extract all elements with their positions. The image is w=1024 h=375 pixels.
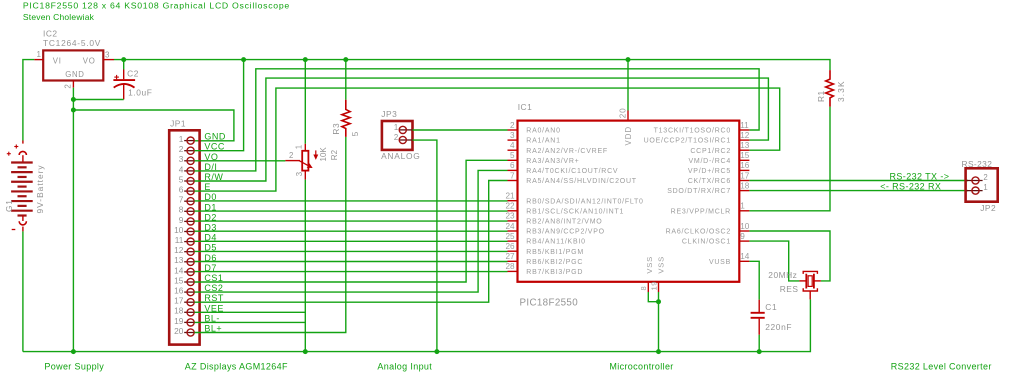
svg-text:RB1/SCL/SCK/AN10/INT1: RB1/SCL/SCK/AN10/INT1: [526, 208, 624, 215]
svg-text:12: 12: [740, 131, 750, 140]
svg-text:RB2/AN8/INT2/VMO: RB2/AN8/INT2/VMO: [526, 219, 602, 226]
svg-text:7: 7: [179, 195, 184, 205]
wire net D5 from JP1 to IC1 RB5: [194, 250, 507, 252]
IC1 pin number 19: [650, 281, 659, 290]
wire net BL- from JP1 pin19 to ground column: [194, 321, 305, 323]
IC1 pin number 20 VDD: [618, 107, 627, 118]
battery value label 9V-Battery: [35, 164, 45, 213]
svg-text:1: 1: [179, 134, 184, 144]
svg-text:4: 4: [510, 141, 515, 150]
svg-text:28: 28: [505, 262, 515, 271]
wire net D2 from JP1 to IC1 RB2: [194, 220, 507, 222]
wire VCC rail: [114, 60, 830, 71]
junction ground rail JP3 branch: [434, 349, 439, 354]
wire R1 bottom to MCLR net: [749, 107, 830, 211]
connector JP3 body with 2 pin pads: [382, 121, 413, 150]
svg-text:AZ Displays AGM1264F: AZ Displays AGM1264F: [185, 362, 288, 372]
svg-text:19: 19: [174, 316, 184, 326]
svg-text:26: 26: [505, 242, 515, 251]
svg-text:GND: GND: [204, 132, 226, 142]
svg-text:21: 21: [505, 192, 515, 201]
svg-text:RA3/AN3/VR+: RA3/AN3/VR+: [526, 158, 579, 165]
capacitor C1 body: [751, 300, 765, 335]
connector JP1 body with 20 pin pads: [169, 130, 199, 344]
junction GND trunk: [71, 108, 76, 113]
svg-text:CCP1/RC2: CCP1/RC2: [690, 148, 731, 155]
resistor R1 name: [816, 90, 826, 102]
svg-text:VDD: VDD: [624, 126, 633, 146]
wire net D0 from JP1 to IC1 RB0: [194, 200, 507, 202]
resonator name RES: [780, 284, 799, 294]
resistor R3 name: [331, 123, 341, 135]
svg-text:11: 11: [175, 235, 184, 245]
wire VCC rail to IC1 VDD: [627, 60, 629, 111]
IC1 VDD label: [624, 126, 633, 146]
svg-text:RA6/CLKO/OSC2: RA6/CLKO/OSC2: [666, 229, 731, 236]
wire VCC rail to R2 pin1: [304, 60, 306, 144]
svg-text:VP/D+/RC5: VP/D+/RC5: [688, 168, 731, 175]
R2 pin number 1: [294, 145, 303, 149]
wire net VCC from rail to JP1 pin2: [194, 60, 243, 151]
svg-text:IC2: IC2: [43, 29, 58, 39]
svg-text:VI: VI: [53, 56, 62, 65]
junction ground rail VSS branch: [656, 349, 661, 354]
svg-text:10: 10: [174, 225, 184, 235]
svg-text:20: 20: [618, 107, 627, 118]
svg-text:9: 9: [740, 232, 745, 241]
svg-text:24: 24: [505, 222, 515, 231]
svg-text:C1: C1: [765, 302, 777, 312]
junction C2 top on VCC rail: [121, 57, 126, 62]
svg-text:8: 8: [179, 205, 184, 215]
svg-text:14: 14: [740, 252, 750, 261]
wire IC1 VUSB pin14 to C1 top: [749, 261, 759, 299]
svg-text:CLKIN/OSC1: CLKIN/OSC1: [682, 239, 731, 246]
svg-text:JP3: JP3: [381, 109, 397, 119]
svg-text:T13CKI/T1OSO/RC0: T13CKI/T1OSO/RC0: [654, 128, 731, 135]
microcontroller IC1 value PIC18F2550: [520, 297, 579, 308]
svg-text:Steven Cholewiak: Steven Cholewiak: [23, 12, 95, 22]
svg-text:GND: GND: [65, 70, 84, 79]
svg-text:17: 17: [174, 296, 184, 306]
svg-text:RE3/VPP/MCLR: RE3/VPP/MCLR: [671, 208, 731, 215]
resistor R1 body: [826, 70, 834, 107]
svg-text:18: 18: [740, 181, 750, 190]
wire net D3 from JP1 to IC1 RB3: [194, 230, 507, 232]
wire net RX from IC1 pin18 to JP2 pin1: [749, 190, 968, 192]
IC2 label GND: [65, 70, 84, 79]
wire R2 pin3 to ground rail: [304, 180, 306, 352]
title text line 1: [23, 1, 290, 11]
svg-text:RA2/AN2/VR-/CVREF: RA2/AN2/VR-/CVREF: [526, 148, 608, 155]
junction IC1 VDD trunk on VCC rail: [626, 57, 631, 62]
svg-text:Analog Input: Analog Input: [377, 362, 432, 372]
resistor R3 value 5: [350, 131, 360, 136]
wire net D4 from JP1 to IC1 RB4: [194, 240, 507, 242]
svg-text:18: 18: [174, 306, 184, 316]
svg-text:11: 11: [740, 121, 749, 130]
JP3 pin number 2: [394, 133, 398, 142]
svg-text:14: 14: [174, 265, 184, 275]
microcontroller IC1 body: [508, 111, 750, 293]
svg-text:8: 8: [639, 286, 648, 290]
wire C1 bottom to ground rail: [758, 335, 760, 352]
trimmer R2 name: [330, 149, 339, 160]
JP2 pin number 2: [983, 173, 987, 182]
junction C2 GND: [71, 97, 76, 102]
svg-text:12: 12: [174, 245, 184, 255]
wire net TX from IC1 pin17 to JP2 pin2: [749, 180, 968, 182]
net label RS-232 TX ->: [890, 171, 950, 181]
svg-text:9V-Battery: 9V-Battery: [35, 164, 45, 213]
voltage regulator IC2 value TC1264-5.0V: [43, 38, 101, 48]
resistor R1 value 3.3K: [836, 80, 846, 102]
wire C2 bottom to GND trunk: [73, 99, 123, 101]
svg-text:RA0/AN0: RA0/AN0: [526, 128, 560, 135]
wire JP3 pin2 to ground rail: [413, 140, 437, 352]
svg-text:R3: R3: [331, 123, 341, 135]
wire IC1 VSS pin8 to pin19 column: [648, 292, 658, 302]
connector JP3 value ANALOG: [381, 151, 420, 161]
svg-text:RB7/KBI3/PGD: RB7/KBI3/PGD: [526, 269, 583, 276]
svg-text:1.0uF: 1.0uF: [128, 87, 152, 97]
svg-text:1: 1: [37, 50, 42, 59]
svg-text:VM/D-/RC4: VM/D-/RC4: [688, 158, 731, 165]
junction VSS pins join: [656, 299, 661, 304]
trimmer R2 value 10K: [319, 147, 328, 162]
svg-text:TC1264-5.0V: TC1264-5.0V: [43, 38, 101, 48]
connector JP2 value label: [980, 203, 996, 213]
svg-text:17: 17: [740, 171, 750, 180]
wire battery minus to ground rail: [22, 231, 24, 351]
svg-text:R1: R1: [816, 90, 826, 102]
connector JP3 name: [381, 109, 397, 119]
svg-text:RA1/AN1: RA1/AN1: [526, 138, 560, 145]
svg-text:VO: VO: [83, 56, 96, 65]
wire net VO from JP1 pin3 to R2 wiper: [194, 160, 285, 162]
junction ground rail R2 branch: [303, 349, 308, 354]
IC2 label VI: [53, 56, 62, 65]
voltage regulator IC2 name: [43, 29, 58, 39]
wire net D6 from JP1 to IC1 RB6: [194, 261, 507, 263]
trimmer R2 body: [285, 144, 317, 180]
wire net D1 from JP1 to IC1 RB1: [194, 210, 507, 212]
svg-text:220nF: 220nF: [765, 322, 792, 332]
wire IC1 OSC2 pin10 to resonator right: [749, 231, 830, 281]
svg-text:5: 5: [179, 174, 184, 184]
svg-text:23: 23: [505, 212, 515, 221]
svg-text:5: 5: [510, 151, 515, 160]
svg-text:R2: R2: [330, 149, 339, 160]
svg-text:19: 19: [650, 281, 659, 290]
wire IC1 OSC1 pin9 to resonator left: [749, 241, 799, 281]
svg-text:2: 2: [510, 121, 515, 130]
svg-text:PIC18F2550 128 x 64 KS0108 Gra: PIC18F2550 128 x 64 KS0108 Graphical LCD…: [23, 1, 290, 11]
wire IC1 VSS pin19 to ground rail: [658, 292, 660, 352]
wire net E from JP1 pin6 via top bus to IC1 pin13: [194, 88, 779, 191]
svg-text:2: 2: [63, 84, 72, 89]
svg-text:1: 1: [294, 145, 303, 149]
junction R2 pin1 trunk on VCC rail: [303, 57, 308, 62]
svg-text:15: 15: [740, 151, 750, 160]
svg-text:Microcontroller: Microcontroller: [609, 362, 673, 372]
IC1 pin number 8: [639, 286, 648, 290]
svg-text:PIC18F2550: PIC18F2550: [520, 297, 579, 308]
voltage regulator IC2 body: [34, 50, 114, 87]
svg-text:SDO/DT/RX/RC7: SDO/DT/RX/RC7: [667, 188, 731, 195]
svg-text:13: 13: [174, 255, 184, 265]
section label RS232 Level Converter: [891, 362, 992, 372]
IC1 left pin numbers: [505, 121, 515, 271]
capacitor C2 name: [127, 69, 139, 79]
svg-text:VUSB: VUSB: [709, 259, 731, 266]
svg-text:RB6/KBI2/PGC: RB6/KBI2/PGC: [526, 259, 583, 266]
junction R3 trunk on VCC rail: [343, 57, 348, 62]
svg-text:6: 6: [179, 185, 184, 195]
svg-text:27: 27: [505, 252, 515, 261]
svg-text:RES: RES: [780, 284, 799, 294]
svg-text:RB3/AN9/CCP2/VPO: RB3/AN9/CCP2/VPO: [526, 229, 605, 236]
svg-text:5: 5: [350, 131, 360, 136]
section label Microcontroller: [609, 362, 673, 372]
title text line 2: [23, 12, 95, 22]
svg-text:RA5/AN4/SS/HLVDIN/C2OUT: RA5/AN4/SS/HLVDIN/C2OUT: [526, 178, 636, 185]
svg-text:6: 6: [510, 161, 515, 170]
svg-text:7: 7: [510, 171, 515, 180]
net label <- RS-232 RX: [880, 182, 941, 192]
connector JP1 name: [170, 118, 186, 128]
junction JP1 VCC trunk on VCC rail: [241, 57, 246, 62]
junction ground rail IC2 branch: [71, 349, 76, 354]
svg-text:1: 1: [394, 123, 398, 132]
R2 pin number 3: [295, 172, 304, 176]
capacitor C1 value 220nF: [765, 322, 792, 332]
JP1 pin numbers 1-20: [174, 134, 184, 336]
svg-text:1: 1: [983, 183, 987, 192]
battery G1: [7, 141, 33, 232]
JP3 pin number 1: [394, 123, 398, 132]
svg-text:G1: G1: [5, 199, 14, 212]
svg-text:22: 22: [505, 202, 515, 211]
capacitor C2 value 1.0uF: [128, 87, 152, 97]
svg-text:20: 20: [174, 326, 184, 336]
wire net D/I from JP1 pin4 via top bus to IC1 pin11: [194, 69, 759, 171]
IC2 pin number 1: [37, 50, 42, 59]
wire JP3 pin1 to IC1 RA0: [413, 129, 508, 131]
wire net D7 from JP1 to IC1 RB7: [194, 271, 507, 273]
IC1 right pin numbers: [740, 121, 750, 261]
IC2 pin number 2: [63, 84, 72, 89]
IC1 VSS label pin19: [657, 256, 666, 274]
wire JP1 GND to IC2 GND trunk: [73, 110, 234, 141]
svg-text:RB5/KBI1/PGM: RB5/KBI1/PGM: [526, 249, 584, 256]
capacitor C1 name: [765, 302, 777, 312]
connector JP2 name RS-232: [962, 159, 993, 169]
svg-text:C2: C2: [127, 69, 139, 79]
svg-text:3: 3: [510, 131, 515, 140]
wire net BL+ from JP1 pin20 to R3 bottom: [194, 137, 345, 333]
svg-text:1: 1: [740, 202, 745, 211]
svg-text:13: 13: [740, 141, 750, 150]
svg-text:10: 10: [740, 222, 750, 231]
svg-text:25: 25: [505, 232, 515, 241]
svg-text:3: 3: [105, 50, 110, 59]
resonator value 20MHz: [768, 270, 797, 280]
IC1 left pin names: [526, 128, 643, 276]
wire net CS1 from JP1 pin15 to IC1 pin5: [194, 160, 507, 282]
microcontroller IC1 name: [518, 102, 533, 112]
resonator RES body: [799, 271, 821, 299]
svg-text:4: 4: [179, 164, 184, 174]
junction ground rail C1 branch: [757, 349, 762, 354]
svg-text:RA4/T0CKI/C1OUT/RCV: RA4/T0CKI/C1OUT/RCV: [526, 168, 618, 175]
svg-text:Power Supply: Power Supply: [44, 362, 104, 372]
wire net VEE from JP1 pin18 to ground column: [194, 311, 305, 313]
svg-text:16: 16: [174, 286, 184, 296]
JP2 pin number 1: [983, 183, 987, 192]
wire net R/W from JP1 pin5 via top bus to IC1 pin12: [194, 78, 768, 181]
svg-text:UOE/CCP2/T1OSI/RC1: UOE/CCP2/T1OSI/RC1: [644, 138, 731, 145]
wire IC2 pin2 to ground rail: [72, 88, 74, 352]
svg-text:2: 2: [983, 173, 987, 182]
section label Power Supply: [44, 362, 104, 372]
section label Analog Input: [377, 362, 432, 372]
svg-text:<- RS-232 RX: <- RS-232 RX: [880, 182, 941, 192]
svg-text:3: 3: [295, 172, 304, 176]
resistor R3 body: [342, 100, 350, 137]
svg-text:RB0/SDA/SDI/AN12/INT0/FLT0: RB0/SDA/SDI/AN12/INT0/FLT0: [526, 198, 643, 205]
svg-text:VSS: VSS: [657, 256, 666, 274]
IC1 VSS label pin8: [645, 256, 654, 274]
svg-text:3.3K: 3.3K: [836, 80, 846, 102]
capacitor C2: [113, 60, 135, 100]
svg-text:CK/TX/RC6: CK/TX/RC6: [688, 178, 731, 185]
svg-text:15: 15: [174, 275, 184, 285]
svg-text:2: 2: [289, 151, 293, 160]
svg-text:20MHz: 20MHz: [768, 270, 797, 280]
wire battery plus to IC2 pin 1: [23, 60, 34, 141]
IC2 pin number 3: [105, 50, 110, 59]
connector JP2 body with 2 pin pads: [966, 168, 998, 201]
IC2 label VO: [83, 56, 96, 65]
svg-text:ANALOG: ANALOG: [381, 151, 420, 161]
svg-text:16: 16: [740, 161, 750, 170]
svg-text:IC1: IC1: [518, 102, 533, 112]
R2 pin number 2: [289, 151, 293, 160]
svg-text:RS-232 TX ->: RS-232 TX ->: [890, 171, 950, 181]
svg-text:2: 2: [394, 133, 398, 142]
svg-text:VSS: VSS: [645, 256, 654, 274]
wire net RST from JP1 pin17 to IC1 pin7: [194, 181, 507, 303]
svg-text:3: 3: [179, 154, 184, 164]
svg-text:RS232 Level Converter: RS232 Level Converter: [891, 362, 992, 372]
wire VCC rail to R3 top: [345, 60, 347, 100]
JP1 net labels GND VCC VO D/I R/W E D0-D7 CS1 CS2 RST VEE BL- BL+: [204, 132, 226, 334]
wire net CS2 from JP1 pin16 to IC1 pin6: [194, 170, 507, 292]
svg-text:JP1: JP1: [170, 118, 186, 128]
svg-text:RB4/AN11/KBI0: RB4/AN11/KBI0: [526, 239, 585, 246]
svg-text:2: 2: [179, 144, 184, 154]
svg-text:9: 9: [179, 215, 184, 225]
svg-text:10K: 10K: [319, 147, 328, 162]
wire ground rail: [23, 299, 811, 351]
battery G1 name label: [5, 199, 14, 212]
IC1 right pin names: [644, 128, 731, 266]
section label AZ Displays AGM1264F: [185, 362, 288, 372]
svg-text:JP2: JP2: [980, 203, 996, 213]
